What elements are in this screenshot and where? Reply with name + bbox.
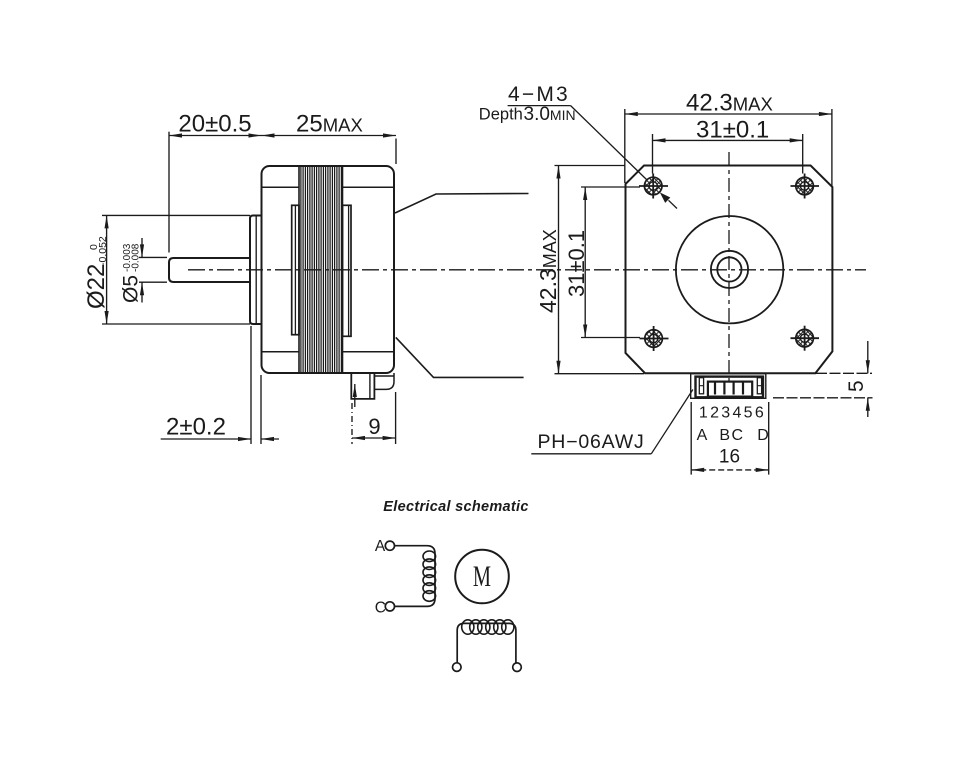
mounting hole top-left (639, 174, 668, 199)
small pin arrow (354, 384, 356, 407)
coil A-C loops (423, 551, 436, 601)
projection flare line top (395, 194, 529, 214)
svg-text:PH−06AWJ: PH−06AWJ (538, 431, 645, 453)
shaft circle Ø5 front (717, 257, 741, 281)
svg-text:Ø22: Ø22 (83, 264, 110, 309)
svg-text:-0.052: -0.052 (97, 236, 109, 266)
pilot circle Ø22 front (676, 216, 783, 323)
front view vertical centerline (728, 152, 730, 385)
terminal C circle (385, 602, 394, 611)
front pilot boss (250, 216, 262, 325)
wire A to coil (395, 546, 436, 607)
dimension 16 (690, 402, 692, 475)
svg-text:5: 5 (845, 380, 868, 392)
hub circle (711, 251, 748, 288)
cable tab side view (374, 373, 394, 389)
terminal B circle (453, 663, 462, 672)
dimension 42.3MAX horizontal (624, 109, 626, 183)
dimension 20±0.5 (168, 132, 170, 253)
svg-text:2±0.2: 2±0.2 (166, 414, 226, 441)
mounting hole top-right (791, 174, 820, 199)
svg-text:M: M (473, 559, 491, 593)
svg-text:Ø5: Ø5 (120, 275, 143, 303)
mounting hole bottom-left (640, 326, 669, 351)
svg-text:-0.008: -0.008 (131, 243, 142, 272)
connector opening (708, 382, 752, 397)
svg-text:Depth: Depth (479, 106, 523, 124)
terminal A circle (385, 541, 394, 550)
svg-text:Electrical schematic: Electrical schematic (383, 499, 528, 515)
wire: main horizontal centerline axis (188, 269, 866, 271)
svg-text:B: B (719, 427, 730, 444)
dimension 9 (351, 403, 353, 444)
dimension 2±0.2 (250, 326, 252, 444)
svg-text:123456: 123456 (699, 404, 766, 421)
svg-text:4−M3: 4−M3 (508, 83, 570, 106)
lamination stripes (301, 166, 342, 373)
leader 4-M3 (508, 105, 571, 107)
svg-text:20±0.5: 20±0.5 (178, 111, 251, 138)
coil B-D baseline (457, 623, 516, 663)
dimension Ø22 (102, 214, 250, 216)
svg-text:A: A (375, 538, 386, 555)
label Ø22 tolerance (83, 236, 110, 309)
label Ø5 tolerance (120, 243, 143, 303)
svg-text:A: A (697, 427, 708, 444)
svg-text:31±0.1: 31±0.1 (564, 230, 589, 297)
coil B-D loops (462, 620, 514, 634)
svg-text:16: 16 (719, 447, 740, 468)
svg-text:D: D (757, 427, 769, 444)
end cap joint line bottom (262, 351, 300, 353)
shaft (169, 258, 250, 282)
dimension 31±0.1 horizontal (652, 134, 654, 174)
front view outline (626, 166, 833, 374)
mounting hole bottom-right (791, 326, 820, 351)
connector bump under side view (351, 374, 374, 399)
dimension 31±0.1 vertical (581, 186, 640, 188)
lamination stack left edge (298, 166, 300, 373)
motor circle M (455, 550, 509, 604)
pins 2-5 (714, 382, 716, 394)
end cap joint line top (262, 186, 300, 188)
svg-text:31±0.1: 31±0.1 (696, 117, 769, 144)
lamination stack right edge (342, 166, 344, 373)
projection flare line bottom (396, 337, 524, 377)
dimension Ø5 (139, 256, 167, 258)
svg-text:42.3MAX: 42.3MAX (686, 90, 773, 117)
motor body side view (262, 166, 395, 373)
dimension 25MAX (395, 139, 397, 165)
terminal D circle (513, 663, 522, 672)
winding overhang right (343, 205, 352, 336)
connector PH-06AWJ front (691, 374, 766, 399)
svg-text:25MAX: 25MAX (296, 111, 363, 138)
winding overhang left (292, 205, 299, 334)
svg-text:9: 9 (368, 414, 380, 439)
svg-text:C: C (375, 600, 386, 617)
pin1 slot (699, 378, 703, 394)
pin6 slot (757, 378, 761, 394)
leader PH-06AWJ (531, 453, 651, 455)
dimension 42.3MAX vertical (555, 165, 626, 167)
dimension 5 (816, 372, 872, 374)
svg-text:3.0MIN: 3.0MIN (524, 104, 576, 125)
svg-text:C: C (732, 427, 744, 444)
